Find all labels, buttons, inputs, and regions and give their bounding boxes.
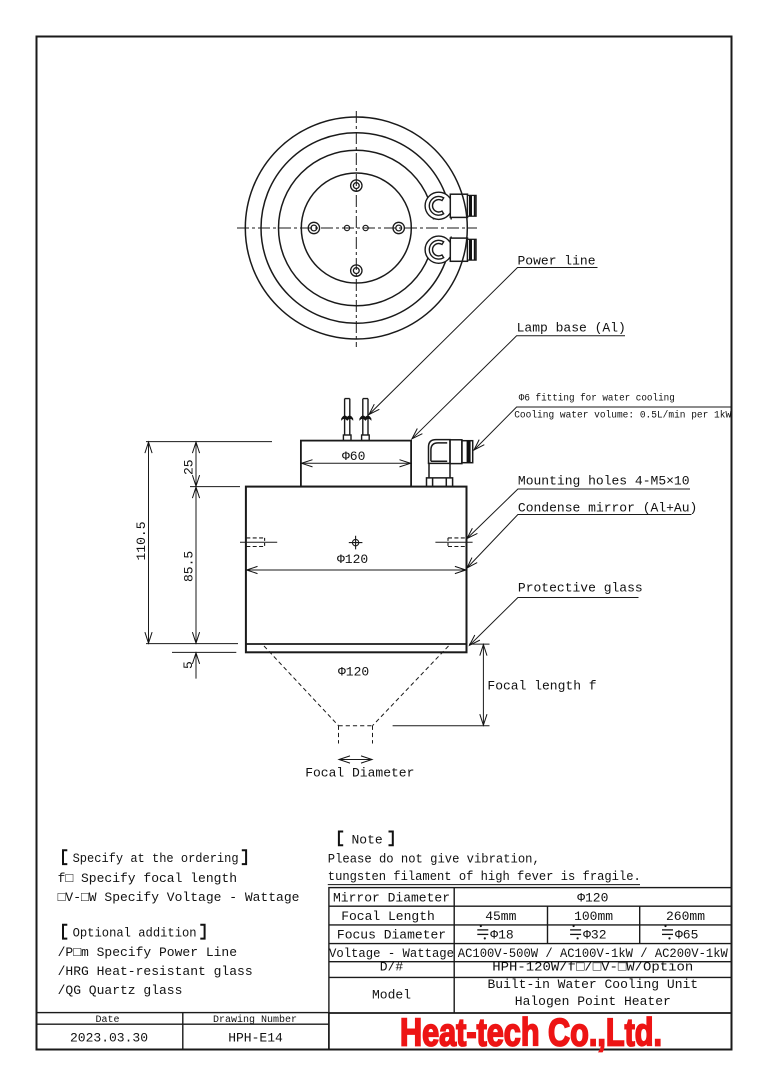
svg-text:Focus Diameter: Focus Diameter [337, 928, 446, 943]
pipe 1 flow chevron [341, 415, 353, 420]
svg-text:/QG Quartz glass: /QG Quartz glass [58, 983, 183, 998]
approx symbol [662, 925, 673, 940]
lamp base [301, 441, 411, 487]
svg-text:Specify at the ordering: Specify at the ordering [73, 851, 239, 866]
svg-text:HPH-E14: HPH-E14 [228, 1031, 283, 1046]
svg-text:Please do not give vibration,: Please do not give vibration, [328, 851, 540, 866]
svg-text:Mounting holes 4-M5×10: Mounting holes 4-M5×10 [518, 474, 690, 489]
logo box [329, 1013, 732, 1050]
svg-text:Model: Model [372, 988, 411, 1003]
svg-text:45mm: 45mm [485, 909, 516, 924]
svg-text:Φ18: Φ18 [490, 928, 513, 943]
svg-text:tungsten filament of high feve: tungsten filament of high fever is fragi… [328, 869, 641, 884]
leader lamp base [412, 336, 625, 439]
circle 2 [261, 133, 452, 324]
heater body [246, 487, 467, 653]
svg-text:Φ6 fitting for water cooling: Φ6 fitting for water cooling [519, 393, 675, 405]
bolt hole top [351, 180, 362, 191]
extension body top [190, 486, 240, 488]
svg-text:Φ60: Φ60 [342, 449, 365, 464]
circle 3 [279, 150, 435, 306]
leader power line [369, 268, 598, 415]
dim 25 + 85.5 line [195, 442, 197, 486]
leader water fitting [474, 407, 731, 450]
svg-text:260mm: 260mm [666, 909, 705, 924]
focal diameter arrows [339, 759, 372, 761]
svg-text:Power line: Power line [518, 254, 596, 269]
protective glass line [246, 643, 467, 645]
mounting hole hidden right [435, 538, 472, 547]
specification table grid [329, 888, 732, 1013]
mounting plate circle [301, 173, 411, 283]
svg-text:Focal Diameter: Focal Diameter [305, 766, 414, 781]
svg-text:Φ120: Φ120 [577, 891, 608, 906]
ordering options text block [58, 850, 300, 998]
approx symbol [570, 925, 581, 940]
water fitting top view lower [425, 236, 476, 263]
specification table texts [333, 891, 705, 943]
focal cone dashed [264, 646, 449, 744]
svg-text:Φ65: Φ65 [675, 928, 698, 943]
svg-text:/P□m Specify Power Line: /P□m Specify Power Line [58, 945, 237, 960]
leader protective glass [470, 598, 639, 646]
elbow fitting body [427, 440, 473, 487]
svg-text:110.5: 110.5 [134, 521, 149, 560]
leader mounting holes [467, 489, 690, 539]
bracket optional [63, 925, 205, 939]
svg-text:Date: Date [95, 1015, 119, 1026]
bolt hole right [393, 222, 404, 233]
svg-text:Condense mirror (Al+Au): Condense mirror (Al+Au) [518, 501, 697, 516]
svg-text:/HRG Heat-resistant glass: /HRG Heat-resistant glass [58, 964, 253, 979]
cover between fittings [430, 220, 464, 237]
svg-text:Φ120: Φ120 [338, 665, 369, 680]
svg-text:Focal length f: Focal length f [487, 679, 596, 694]
dim phi60 [302, 462, 411, 464]
svg-text:2023.03.30: 2023.03.30 [70, 1031, 148, 1046]
small center hole left [344, 225, 349, 230]
outer mirror circle (drawn over fittings as in drawing) [245, 117, 467, 339]
svg-text:f□ Specify focal length: f□ Specify focal length [58, 871, 237, 886]
svg-text:Focal Length: Focal Length [341, 909, 435, 924]
svg-text:Optional addition: Optional addition [73, 926, 197, 941]
svg-text:85.5: 85.5 [182, 551, 197, 582]
center mark [349, 536, 363, 550]
svg-text:Heat-tech Co.,Ltd.: Heat-tech Co.,Ltd. [400, 1012, 662, 1055]
svg-text:HPH-120W/f□/□V-□W/Option: HPH-120W/f□/□V-□W/Option [492, 960, 693, 975]
title block texts [70, 1014, 297, 1046]
date / drawing number title block [37, 1013, 329, 1050]
svg-text:Φ120: Φ120 [337, 552, 368, 567]
note block [328, 832, 641, 885]
dim 5 lower arrow [195, 653, 197, 679]
svg-text:Lamp base (Al): Lamp base (Al) [517, 321, 626, 336]
dim phi120 [247, 569, 466, 571]
svg-text:Cooling water volume: 0.5L/min: Cooling water volume: 0.5L/min per 1kW [514, 410, 732, 422]
svg-text:5: 5 [181, 661, 196, 669]
extension glass top [146, 643, 238, 645]
extension top (lamp base top) [146, 441, 272, 443]
pipe 2 flow chevron [359, 415, 371, 420]
bracket specify [63, 850, 246, 864]
bolt hole bottom [351, 265, 362, 276]
water fitting top view upper [425, 192, 476, 219]
small center hole right [363, 225, 368, 230]
svg-text:Mirror Diameter: Mirror Diameter [333, 891, 450, 906]
svg-text:D/#: D/# [380, 960, 404, 975]
bolt hole left [308, 222, 319, 233]
dim 110.5 [148, 442, 150, 643]
focal length dim [393, 644, 490, 726]
power pipe 1 [343, 399, 351, 441]
svg-text:Note: Note [352, 833, 383, 848]
svg-text:Halogen Point Heater: Halogen Point Heater [515, 994, 671, 1009]
power pipe 2 [362, 399, 370, 441]
svg-text:100mm: 100mm [574, 909, 613, 924]
callout labels [134, 254, 732, 781]
svg-text:Protective glass: Protective glass [518, 581, 643, 596]
vertical centerline [355, 111, 357, 347]
svg-text:25: 25 [182, 459, 197, 475]
mounting hole hidden left [240, 538, 277, 547]
svg-text:Φ32: Φ32 [583, 928, 606, 943]
leader condense mirror [467, 515, 692, 569]
extension glass bottom [172, 651, 236, 653]
svg-text:□V-□W Specify Voltage - Wattag: □V-□W Specify Voltage - Wattage [58, 890, 300, 905]
note brackets [339, 832, 393, 846]
approx symbol [477, 925, 488, 940]
svg-text:Built-in Water Cooling Unit: Built-in Water Cooling Unit [487, 977, 698, 992]
svg-text:Drawing Number: Drawing Number [213, 1014, 297, 1026]
horizontal centerline [237, 227, 477, 229]
